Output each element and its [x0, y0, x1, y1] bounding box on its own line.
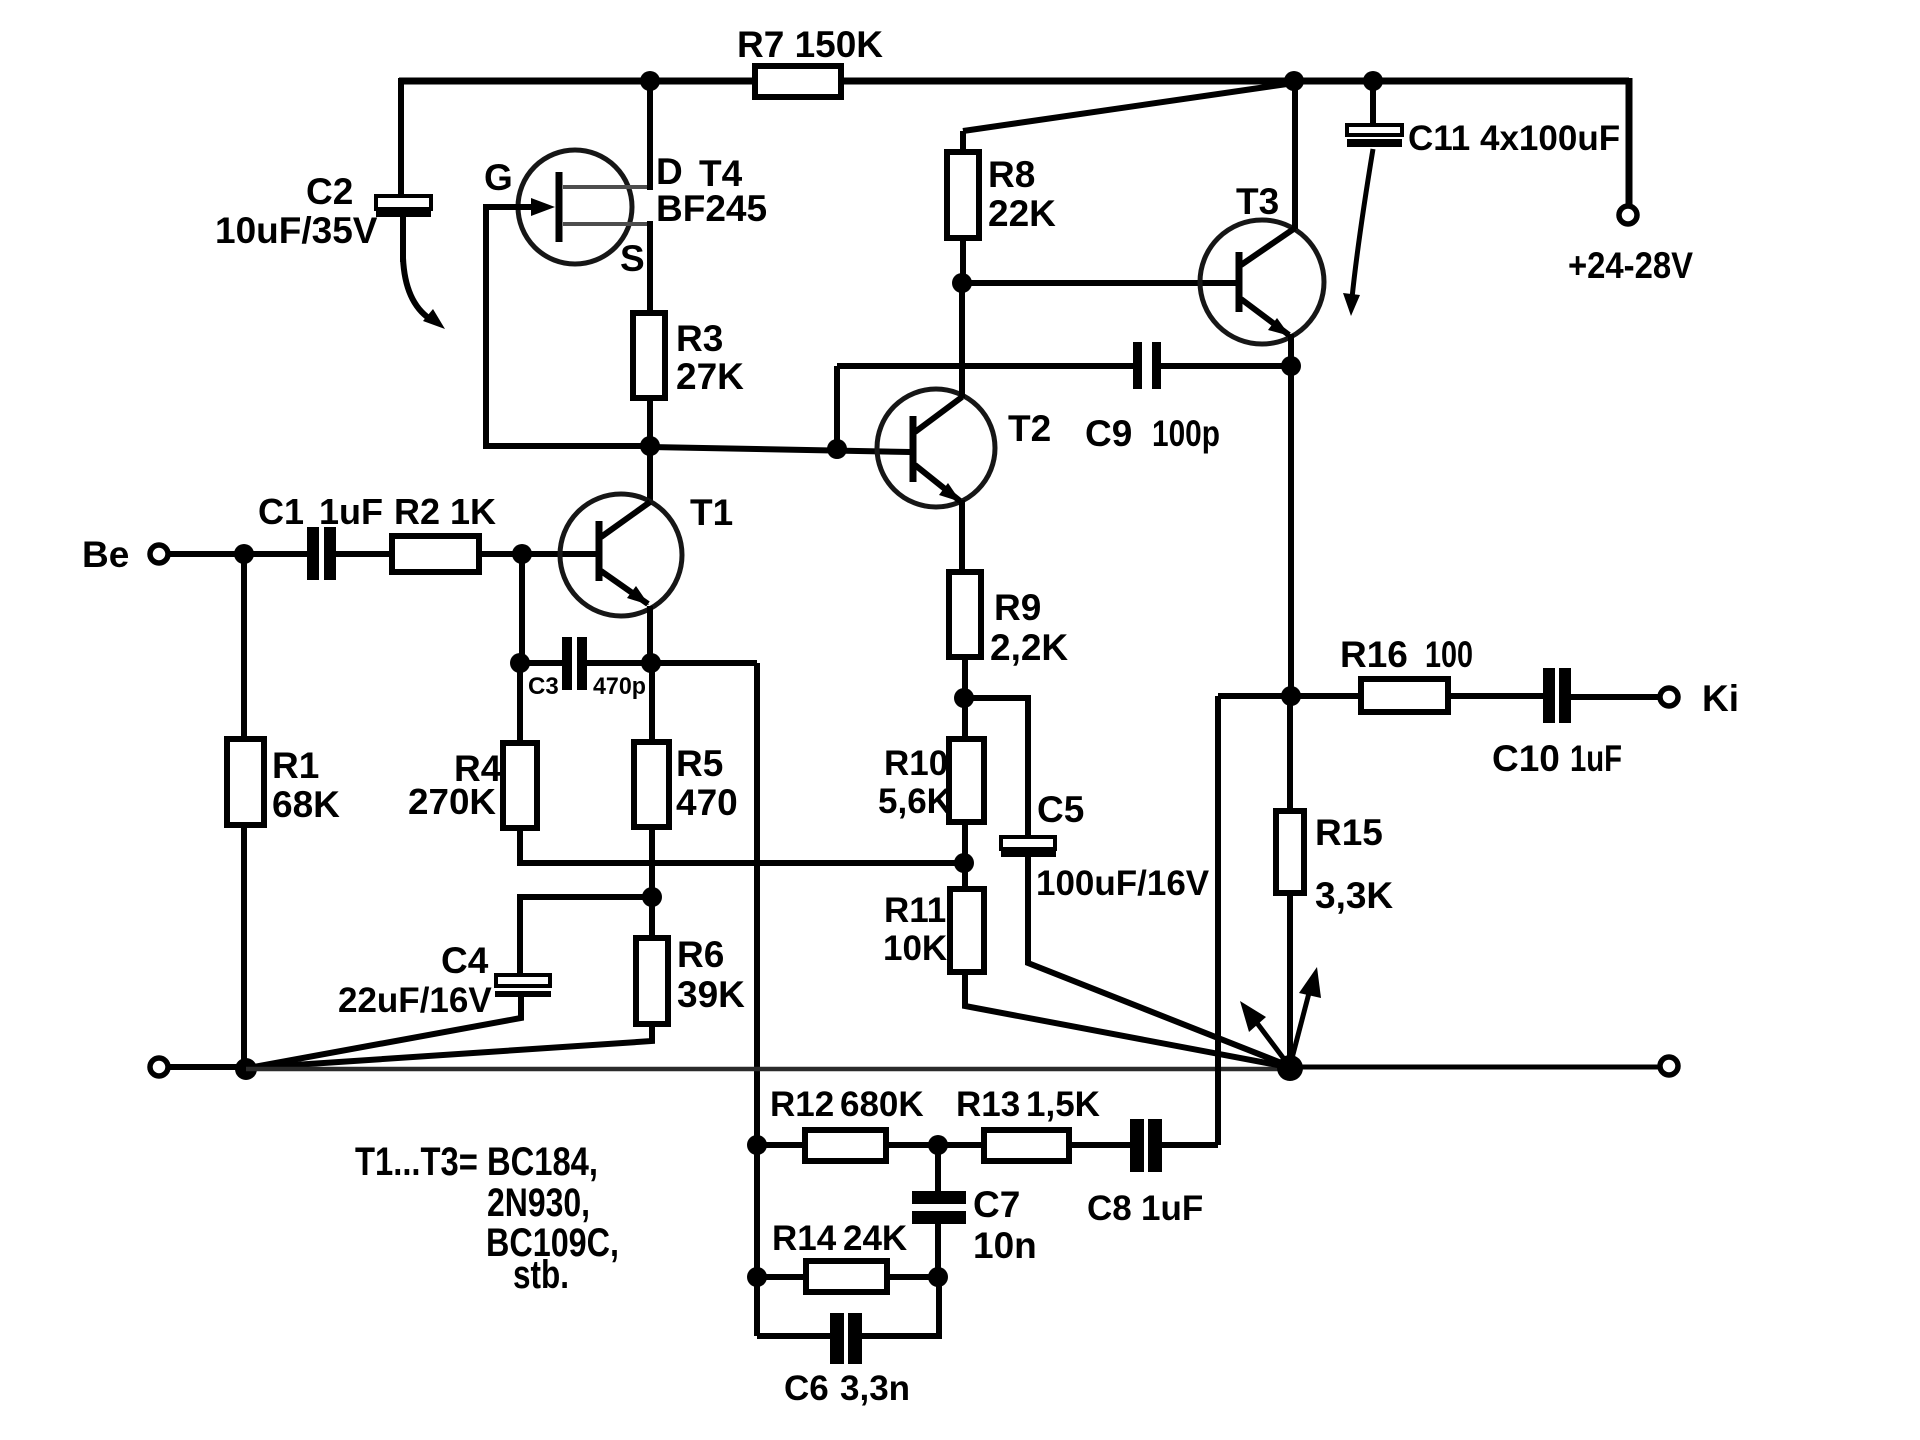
wire C7 bottom lead [935, 1223, 941, 1277]
capacitor C3 [520, 637, 652, 700]
wire C8 column [1215, 696, 1221, 1145]
svg-text:1uF: 1uF [319, 491, 383, 532]
svg-text:C6: C6 [784, 1369, 829, 1408]
resistor R1 [227, 739, 264, 825]
resistor R15 [1276, 811, 1304, 893]
wire R6 top lead [649, 897, 655, 938]
wire base node down to C3 [519, 554, 525, 664]
annotation arrow ground junction right [1291, 967, 1321, 1062]
svg-text:R1: R1 [272, 745, 319, 786]
wire output column T3 emitter down [1288, 366, 1294, 697]
svg-text:R14: R14 [772, 1219, 837, 1258]
svg-text:5,6K: 5,6K [878, 782, 952, 821]
wire top supply rail [399, 78, 1629, 85]
svg-text:T3: T3 [1236, 181, 1279, 222]
svg-text:C10: C10 [1492, 738, 1560, 779]
capacitor C1 [258, 491, 383, 580]
wire R11 top lead [962, 863, 968, 891]
svg-text:C4: C4 [441, 940, 489, 981]
svg-text:27K: 27K [676, 356, 744, 397]
wire R10 top lead [962, 698, 968, 741]
resistor R12 [805, 1130, 886, 1161]
wire R3 bottom lead [647, 395, 653, 449]
svg-text:3,3n: 3,3n [840, 1369, 910, 1408]
terminal ground left [150, 1058, 168, 1076]
svg-text:S: S [620, 238, 645, 279]
svg-text:stb.: stb. [513, 1253, 569, 1297]
capacitor C8 [1087, 1119, 1203, 1228]
node junction R9/R10/C5 [954, 688, 974, 708]
capacitor C2 (electrolytic) [215, 171, 431, 251]
annotation arrow at C11 [1343, 149, 1373, 316]
wire C10 to Ki [1571, 694, 1661, 700]
svg-text:3,3K: 3,3K [1315, 875, 1393, 916]
wire T3 base [962, 280, 1237, 286]
resistor R16 [1361, 679, 1448, 712]
node junction R14 right/C7 [928, 1267, 948, 1287]
node junction C3 right / T1 emitter [641, 653, 661, 673]
wire R16 to C10 [1448, 693, 1543, 699]
resistor R2 [392, 536, 479, 572]
wire diagonal rail to R8 [963, 83, 1294, 131]
svg-text:100uF/16V: 100uF/16V [1036, 864, 1210, 903]
node junction C3 left [510, 653, 530, 673]
wire C4 branch row [520, 897, 652, 975]
resistor R6 [636, 938, 668, 1024]
svg-text:C9: C9 [1085, 413, 1132, 454]
svg-text:R16: R16 [1340, 634, 1408, 675]
wire R8 top lead [960, 131, 966, 154]
node junction rail/T3 collector [1284, 71, 1304, 91]
svg-text:R5: R5 [676, 743, 723, 784]
resistor R5 [634, 742, 669, 827]
wire node to T2 base [650, 447, 910, 452]
svg-text:R7 150K: R7 150K [737, 24, 883, 65]
node junction R10/R11/R4 row [954, 853, 974, 873]
svg-text:BF245: BF245 [656, 188, 767, 229]
wire ground bus right [1290, 1065, 1661, 1070]
wire R12 to R13 [886, 1142, 984, 1148]
svg-text:C3: C3 [528, 673, 559, 700]
transistor Q T2 [877, 389, 1051, 507]
annotation arrow at C2 [403, 258, 445, 329]
node junction ground left [235, 1058, 257, 1080]
wire T2 emitter to R9 [959, 500, 965, 574]
svg-text:39K: 39K [677, 974, 745, 1015]
wire emitter row to feedback column [651, 660, 757, 666]
node junction R5/R6/C4 [642, 887, 662, 907]
wire R8 bottom lead [960, 236, 966, 285]
svg-text:100p: 100p [1152, 413, 1220, 454]
wire R5 top lead [649, 663, 655, 742]
svg-text:Ki: Ki [1702, 678, 1739, 719]
wire R2 to T1 base [479, 551, 596, 557]
annotation arrow ground junction left [1240, 1001, 1287, 1063]
wire C9 branch riser [834, 366, 840, 449]
resistor R9 [949, 572, 981, 657]
terminal Ki output [1660, 688, 1678, 706]
transistor Q T3 [1200, 181, 1324, 344]
wire C2 bottom stub [400, 217, 406, 262]
wire R9 bottom lead [962, 655, 968, 700]
svg-text:4x100uF: 4x100uF [1480, 119, 1620, 158]
wire C2 top lead from rail [398, 78, 404, 196]
wire T3 emitter stub [1288, 334, 1294, 366]
capacitor C5 (electrolytic) [1001, 789, 1210, 903]
resistor R7 [755, 66, 841, 97]
wire R15 top lead [1287, 696, 1293, 813]
svg-text:R2 1K: R2 1K [394, 491, 496, 532]
svg-text:10uF/35V: 10uF/35V [215, 210, 378, 251]
wire C5 bottom diagonal to ground junction [1028, 857, 1289, 1066]
wire T2 collector [959, 285, 965, 398]
wire C9 right lead [1161, 363, 1291, 369]
node junction R8/T2 collector/T3 base [952, 273, 972, 293]
wire R10 bottom lead [962, 820, 968, 865]
svg-text:C2: C2 [306, 171, 353, 212]
wire T4 drain to rail [647, 81, 653, 190]
svg-text:C8: C8 [1087, 1189, 1132, 1228]
wire C9 left lead [837, 363, 1133, 369]
capacitor C10 [1492, 668, 1622, 779]
wire R13 to C8 [1069, 1142, 1130, 1148]
node junction rail/T4 drain [640, 71, 660, 91]
svg-text:10K: 10K [883, 929, 947, 968]
resistor R13 [984, 1130, 1069, 1161]
capacitor C7 [912, 1184, 1037, 1266]
node junction C9 tap [827, 439, 847, 459]
wire R1 bottom lead [241, 825, 247, 1069]
wire R6 bottom lead diagonal to ground [249, 1024, 652, 1068]
wire feedback column down to R12 [754, 663, 760, 1145]
svg-text:22uF/16V: 22uF/16V [338, 981, 492, 1020]
wire R4 bottom lead and row to R10 node [520, 828, 964, 863]
wire C4 bottom lead diagonal to ground [248, 997, 521, 1068]
node junction T3 emitter/C9 [1281, 356, 1301, 376]
wire T3 collector to rail [1292, 83, 1298, 229]
svg-text:T1...T3= BC184,: T1...T3= BC184, [355, 1140, 598, 1184]
svg-text:24K: 24K [843, 1219, 907, 1258]
wire R16 left lead [1291, 693, 1361, 699]
svg-text:C1: C1 [258, 491, 304, 532]
svg-text:270K: 270K [408, 781, 496, 822]
wire C8 right lead [1162, 1142, 1218, 1148]
svg-text:T1: T1 [690, 492, 733, 533]
svg-text:470p: 470p [593, 673, 646, 700]
svg-text:10n: 10n [973, 1225, 1037, 1266]
node junction output R15/R16 [1281, 686, 1301, 706]
resistor R4 [503, 743, 537, 828]
wire C7 top lead [935, 1145, 941, 1192]
terminal ground right [1660, 1057, 1678, 1075]
terminal +24-28V [1619, 206, 1637, 224]
svg-text:R6: R6 [677, 934, 724, 975]
node junction R3/gate/T1 collector [640, 436, 660, 456]
wire R1 top lead [241, 554, 247, 739]
node junction rail/C11 [1363, 71, 1383, 91]
svg-text:G: G [484, 157, 513, 198]
wire R14 right lead [887, 1274, 938, 1280]
svg-text:C11: C11 [1408, 119, 1470, 158]
resistor R10 [949, 739, 984, 822]
node junction R12/R13/C7 [928, 1135, 948, 1155]
svg-text:2N930,: 2N930, [487, 1181, 590, 1225]
wire output node row to C8 column [1218, 693, 1291, 699]
svg-text:1,5K: 1,5K [1026, 1085, 1100, 1124]
svg-text:C7: C7 [973, 1184, 1020, 1225]
node junction R14 left [747, 1267, 767, 1287]
svg-text:1uF: 1uF [1570, 738, 1622, 779]
svg-text:22K: 22K [988, 193, 1056, 234]
wire ground terminal to node [168, 1064, 240, 1070]
resistor R11 [950, 889, 984, 972]
note transistor types text [355, 1140, 619, 1297]
wire C5 branch [964, 698, 1028, 838]
svg-text:R11: R11 [884, 891, 946, 930]
resistor R3 [633, 313, 665, 398]
terminal Be input [150, 545, 168, 563]
wire R11 bottom diagonal to ground junction [965, 970, 1288, 1067]
wire T1 collector [647, 446, 653, 504]
wire Be to C1 [168, 551, 308, 557]
svg-text:68K: 68K [272, 784, 340, 825]
svg-text:2,2K: 2,2K [990, 627, 1068, 668]
svg-text:R15: R15 [1315, 812, 1383, 853]
node junction R2/T1 base/R4 [512, 544, 532, 564]
svg-text:T2: T2 [1008, 408, 1051, 449]
resistor R8 [947, 152, 979, 238]
svg-text:100: 100 [1425, 634, 1473, 675]
svg-text:+24-28V: +24-28V [1568, 245, 1693, 286]
svg-text:R8: R8 [988, 154, 1035, 195]
transistor Q T4 BF245 JFET [484, 150, 767, 279]
svg-text:R13: R13 [956, 1085, 1020, 1124]
wire C6 right row and riser [862, 1277, 939, 1336]
svg-text:470: 470 [676, 782, 738, 823]
node junction R12 left [747, 1135, 767, 1155]
wire R15 bottom lead [1287, 891, 1293, 1068]
svg-text:R12: R12 [770, 1085, 834, 1124]
wire R14 left lead [757, 1274, 806, 1280]
wire ground bus thin [246, 1067, 1290, 1072]
svg-text:680K: 680K [840, 1085, 924, 1124]
node junction Be/R1 [234, 544, 254, 564]
resistor R14 [806, 1261, 887, 1292]
capacitor C6 [784, 1313, 910, 1408]
svg-text:R3: R3 [676, 318, 723, 359]
wire T4 source down to R3 [647, 221, 653, 316]
wire left column R12 to C6 [754, 1145, 760, 1336]
svg-text:C5: C5 [1037, 789, 1084, 830]
wire T4 gate return [486, 204, 645, 446]
svg-text:Be: Be [82, 534, 129, 575]
wire C1 to R2 [336, 551, 392, 557]
wire R4 top lead [517, 663, 523, 743]
wire R12 left lead [757, 1142, 805, 1148]
capacitor C11 (electrolytic) [1347, 81, 1620, 158]
capacitor C4 (electrolytic) [338, 940, 551, 1020]
wire T1 emitter down [647, 606, 653, 664]
svg-text:R10: R10 [884, 744, 948, 783]
node junction ground main [1277, 1055, 1303, 1081]
wire rail corner down to +24-28V terminal [1626, 78, 1633, 206]
capacitor C9 [1085, 342, 1220, 454]
svg-text:1uF: 1uF [1141, 1189, 1203, 1228]
svg-text:R9: R9 [994, 587, 1041, 628]
transistor Q T1 [560, 492, 733, 616]
wire C6 bottom left row [757, 1333, 830, 1339]
wire R5 bottom lead [649, 827, 655, 899]
svg-text:D: D [656, 151, 683, 192]
